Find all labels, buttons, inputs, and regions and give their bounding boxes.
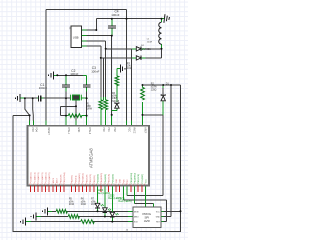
svg-text:220Ω: 220Ω: [151, 90, 157, 92]
svg-text:4: 4: [144, 184, 145, 186]
svg-text:PC5(ADC5): PC5(ADC5): [48, 172, 51, 183]
svg-text:PD3(LED): PD3(LED): [98, 174, 100, 184]
svg-text:PB1(OC1A): PB1(OC1A): [63, 172, 66, 183]
svg-text:2: 2: [70, 184, 71, 186]
svg-text:±5%: ±5%: [69, 201, 74, 203]
svg-text:±5%: ±5%: [81, 201, 86, 203]
svg-text:PD3: PD3: [31, 127, 33, 132]
svg-text:PC6(RST): PC6(RST): [142, 174, 144, 184]
svg-text:VCC: VCC: [128, 127, 130, 132]
svg-text:100nF: 100nF: [70, 72, 78, 76]
svg-text:9: 9: [129, 184, 130, 186]
svg-text:MOSI: MOSI: [134, 211, 139, 213]
svg-text:Red (LED6): Red (LED6): [118, 200, 131, 203]
svg-text:2010: 2010: [69, 204, 75, 206]
svg-text:USB: USB: [73, 35, 79, 39]
svg-text:4: 4: [111, 184, 112, 186]
svg-text:ADC7: ADC7: [56, 177, 59, 183]
svg-text:PC1(ADC1): PC1(ADC1): [33, 172, 36, 183]
svg-text:RESET: RESET: [47, 127, 49, 135]
svg-text:PB1(OC1): PB1(OC1): [90, 174, 92, 184]
svg-text:GND: GND: [77, 127, 79, 132]
svg-text:100nF: 100nF: [39, 86, 47, 90]
svg-text:2010: 2010: [91, 204, 97, 206]
svg-text:PB4(MISO): PB4(MISO): [135, 173, 137, 184]
svg-text:10uH: 10uH: [147, 41, 153, 43]
svg-text:PB4(MISO): PB4(MISO): [101, 173, 103, 184]
svg-text:100nF: 100nF: [111, 13, 119, 17]
svg-text:1N4148: 1N4148: [111, 101, 120, 103]
svg-text:5: 5: [81, 184, 82, 186]
svg-text:PD4(LED): PD4(LED): [105, 174, 107, 184]
svg-text:GND: GND: [156, 217, 161, 219]
svg-text:GND: GND: [120, 178, 122, 183]
svg-text:PD2: PD2: [113, 127, 115, 132]
svg-text:100nF: 100nF: [91, 70, 99, 74]
svg-text:PD6(AIN0): PD6(AIN0): [78, 173, 81, 183]
svg-text:8: 8: [92, 184, 93, 186]
svg-text:PC0(ADC0): PC0(ADC0): [30, 172, 33, 183]
svg-text:PD4: PD4: [35, 127, 37, 132]
svg-text:VCC: VCC: [146, 179, 148, 184]
svg-text:PB5(SCK): PB5(SCK): [138, 174, 140, 184]
svg-text:PD7(AIN1): PD7(AIN1): [82, 173, 85, 183]
svg-text:PB3(MOSI): PB3(MOSI): [131, 173, 133, 184]
svg-text:8: 8: [55, 184, 56, 186]
svg-text:PD5(LED): PD5(LED): [112, 174, 114, 184]
svg-text:PB0(ICP): PB0(ICP): [86, 174, 88, 183]
svg-text:8: 8: [126, 184, 127, 186]
svg-text:2: 2: [33, 184, 34, 186]
svg-text:PC3(ADC3): PC3(ADC3): [41, 172, 44, 183]
svg-text:6: 6: [118, 184, 119, 186]
svg-text:3: 3: [141, 184, 142, 186]
svg-text:2: 2: [104, 184, 105, 186]
svg-text:ADC6: ADC6: [52, 177, 55, 183]
svg-text:1N4001: 1N4001: [142, 47, 152, 51]
svg-text:1: 1: [100, 184, 101, 186]
svg-text:GND: GND: [116, 178, 118, 183]
svg-text:1: 1: [63, 184, 64, 186]
svg-text:9: 9: [59, 184, 60, 186]
svg-text:AREF: AREF: [144, 127, 147, 134]
svg-text:2010: 2010: [127, 68, 133, 70]
svg-text:PC2(ADC2): PC2(ADC2): [37, 172, 40, 183]
svg-text:4: 4: [40, 184, 41, 186]
svg-text:3: 3: [37, 184, 38, 186]
svg-text:4: 4: [78, 184, 79, 186]
svg-text:7: 7: [52, 184, 53, 186]
svg-text:PC4(ADC4): PC4(ADC4): [45, 172, 48, 183]
svg-text:PB5(SCK): PB5(SCK): [109, 174, 111, 184]
svg-text:2: 2: [137, 184, 138, 186]
svg-text:3: 3: [74, 184, 75, 186]
svg-text:PB0(ICP): PB0(ICP): [60, 174, 62, 183]
svg-text:XTAL2: XTAL2: [88, 127, 91, 134]
svg-text:6: 6: [48, 184, 49, 186]
svg-text:2010: 2010: [81, 204, 87, 206]
svg-text:AVCC: AVCC: [133, 127, 136, 133]
svg-text:3: 3: [107, 184, 108, 186]
svg-text:PB2(SS): PB2(SS): [94, 175, 96, 183]
svg-text:±5%: ±5%: [91, 201, 96, 203]
svg-text:AVR: AVR: [144, 219, 150, 223]
svg-text:ATMEGA8: ATMEGA8: [89, 148, 94, 168]
svg-text:1: 1: [133, 184, 134, 186]
svg-text:PD0: PD0: [102, 127, 104, 132]
svg-text:XTAL1: XTAL1: [67, 127, 70, 134]
svg-text:1/8W: 1/8W: [87, 109, 93, 111]
svg-text:±10%: ±10%: [151, 87, 157, 89]
svg-text:PD5(T1): PD5(T1): [75, 175, 77, 183]
svg-text:1: 1: [29, 184, 30, 186]
svg-text:PD1: PD1: [107, 127, 109, 132]
svg-text:5: 5: [115, 184, 116, 186]
svg-text:7: 7: [122, 184, 123, 186]
svg-text:9: 9: [96, 184, 97, 186]
svg-text:MISO: MISO: [134, 217, 139, 219]
svg-text:5: 5: [44, 184, 45, 186]
svg-text:PB2(SS): PB2(SS): [72, 175, 74, 183]
svg-text:7: 7: [89, 184, 90, 186]
svg-text:1/8W: 1/8W: [112, 98, 118, 100]
svg-text:6: 6: [85, 184, 86, 186]
